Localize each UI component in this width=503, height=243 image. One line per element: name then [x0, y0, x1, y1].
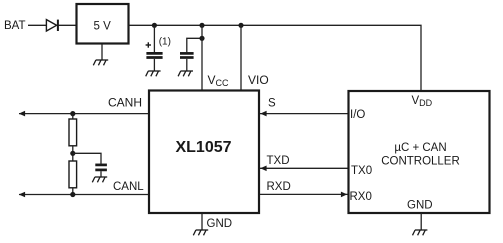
svg-text:I/O: I/O: [350, 109, 365, 121]
wire CANH: [19, 113, 148, 115]
wire TXD (TX0 to TXD): [260, 167, 348, 169]
svg-text:CONTROLLER: CONTROLLER: [381, 156, 460, 168]
wire main 5V rail: [129, 25, 422, 90]
svg-text:(1): (1): [159, 37, 171, 48]
wire BAT to diode: [28, 24, 46, 26]
wire junction to C3: [73, 153, 101, 163]
svg-text:VIO: VIO: [248, 73, 269, 87]
node junction rail/C1: [152, 23, 157, 28]
node junction C2/VCC line: [199, 36, 204, 41]
svg-text:CANL: CANL: [113, 181, 144, 193]
arrowhead S (left into XL1057): [260, 111, 266, 117]
arrowhead CANH (left): [19, 111, 25, 117]
node junction rail/VIO: [238, 23, 243, 28]
diode D1: [46, 20, 58, 31]
resistor R2: [69, 161, 77, 188]
wire VIO pin: [240, 25, 242, 90]
svg-text:XL1057: XL1057: [175, 139, 231, 156]
node junction rail/VCC: [199, 23, 204, 28]
wire VCC pin: [201, 25, 203, 90]
svg-text:BAT: BAT: [4, 20, 26, 32]
IC U2 microcontroller box: [349, 91, 490, 213]
wire S (I/O to S): [260, 113, 348, 115]
wire RXD (RXD to RX0): [260, 193, 348, 195]
ground (under C2): [178, 71, 193, 76]
ground (under controller): [413, 230, 428, 235]
svg-text:RX0: RX0: [350, 191, 372, 203]
svg-text:CANH: CANH: [108, 96, 142, 110]
node junction CANH/R1: [70, 111, 75, 116]
wire XL1057 GND stem: [201, 214, 203, 231]
wire R2 to CANL: [72, 188, 74, 195]
resistor R1: [69, 119, 77, 146]
arrowhead TXD (left into XL1057): [260, 166, 266, 172]
svg-text:GND: GND: [207, 218, 233, 230]
node junction R1/R2/C3: [70, 151, 75, 156]
ground (under C3): [92, 177, 107, 182]
wire R1 to junction: [72, 146, 74, 161]
wire CANL: [19, 194, 148, 196]
capacitor C3: [95, 165, 107, 177]
ground (under 5V regulator): [93, 60, 108, 65]
wire diode to 5V regulator: [59, 24, 77, 26]
svg-text:RXD: RXD: [267, 181, 291, 193]
svg-text:µC + CAN: µC + CAN: [394, 142, 446, 154]
node junction CANL/R2: [70, 192, 75, 197]
wire regulator ground stem: [101, 44, 103, 60]
label C1 plus sign: [146, 42, 151, 47]
svg-text:GND: GND: [407, 200, 433, 212]
arrowhead CANL (left): [19, 192, 25, 198]
arrowhead RXD (right into controller): [341, 192, 347, 198]
regulator 5V box: [77, 4, 129, 44]
capacitor C2: [180, 38, 202, 71]
ground (under C1): [146, 71, 161, 76]
svg-text:S: S: [268, 98, 276, 110]
svg-text:TXD: TXD: [267, 155, 290, 167]
wire controller GND stem: [420, 213, 422, 230]
svg-text:5 V: 5 V: [94, 21, 112, 33]
capacitor C1 (polarized, note 1): [146, 25, 162, 71]
svg-text:TX0: TX0: [351, 165, 372, 177]
ground (under XL1057): [193, 230, 208, 235]
wire CANH junction to R1: [72, 114, 74, 119]
IC U1 XL1057 box: [149, 91, 259, 214]
